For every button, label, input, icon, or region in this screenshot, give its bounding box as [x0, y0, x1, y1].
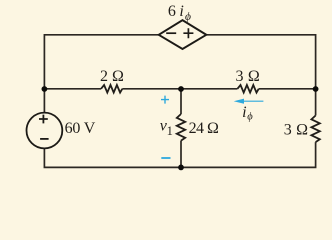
voltage source V1 60V circle — [27, 113, 63, 149]
wire 24ohm branch lower — [180, 141, 182, 168]
wire 24ohm branch upper — [180, 89, 182, 114]
dependent source U1 diamond (6 i_phi) — [159, 20, 207, 49]
svg-text:24 Ω: 24 Ω — [189, 120, 219, 137]
dependent source minus sign — [166, 32, 176, 34]
wire top-left loop (diamond to top-left corner to 60V source) — [44, 35, 158, 113]
resistor 3ohm vertical body — [311, 116, 319, 143]
svg-text:1: 1 — [167, 124, 173, 138]
svg-text:ϕ: ϕ — [247, 112, 253, 123]
resistor 3ohm horizontal body — [237, 85, 258, 93]
dependent source plus sign — [183, 28, 193, 38]
node b junction dot — [178, 86, 184, 92]
svg-text:6: 6 — [168, 3, 176, 20]
svg-text:3 Ω: 3 Ω — [284, 122, 309, 139]
wire top-right loop (3ohm vertical to top-right corner to diamond) — [206, 35, 315, 116]
label 6 i_phi for dependent source — [168, 3, 191, 23]
annotation i_phi current arrow (cyan) — [234, 99, 264, 104]
node c junction dot — [313, 86, 319, 92]
annotation v1 plus (cyan) — [161, 96, 169, 104]
resistor 2ohm body — [101, 85, 122, 93]
wire middle-left (node a to 2ohm) — [44, 88, 101, 90]
voltage source minus sign — [40, 138, 49, 140]
annotation v1 minus (cyan) — [161, 157, 170, 159]
svg-text:ϕ: ϕ — [185, 11, 191, 23]
annotation v1 label (cyan) — [160, 118, 173, 138]
wire bottom loop (60V source to bottom corners to 3ohm vertical) — [44, 142, 315, 167]
node a junction dot — [42, 86, 48, 92]
wire middle (2ohm to node b) — [122, 88, 181, 90]
svg-text:2 Ω: 2 Ω — [100, 68, 124, 85]
svg-text:60 V: 60 V — [65, 120, 96, 137]
svg-text:i: i — [179, 3, 183, 20]
wire middle (node b to 3ohm) — [181, 88, 237, 90]
annotation i_phi label (cyan) — [242, 104, 253, 123]
wire middle-right (3ohm to node c) — [259, 88, 316, 90]
node d junction dot (bottom) — [178, 165, 184, 171]
voltage source plus sign — [39, 115, 48, 124]
resistor 24ohm body — [177, 114, 185, 141]
svg-text:i: i — [242, 104, 246, 121]
svg-text:3 Ω: 3 Ω — [236, 68, 261, 85]
